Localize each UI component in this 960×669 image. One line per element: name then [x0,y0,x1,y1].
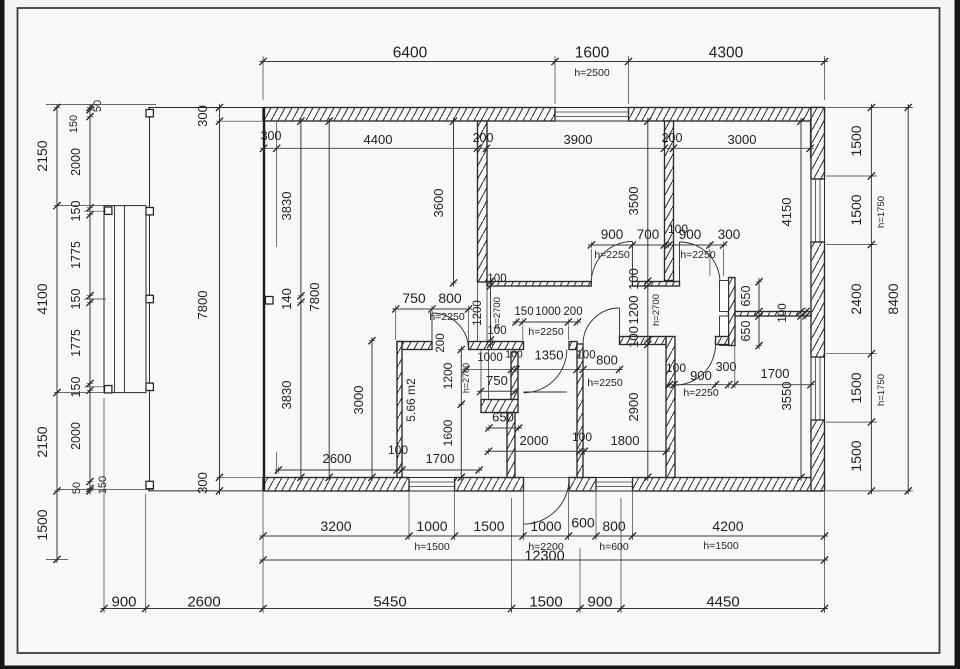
svg-text:1600: 1600 [575,45,610,62]
deck post 3 (150x150) [146,295,153,302]
ext lines bath door dim [396,311,469,340]
hall chain 100 label [668,222,688,236]
svg-text:h=2500: h=2500 [574,67,609,79]
entrance door threshold (1000 h=2200) [524,478,570,492]
hall chain extension lines [591,249,723,276]
bottom exterior wall segment 3 [569,478,596,492]
lobby door (1000 h=2250) arc and leaf [524,350,567,393]
svg-text:h=1500: h=1500 [414,541,449,553]
wall A opening chain 100|1200|100 [472,278,494,348]
svg-text:900: 900 [601,227,624,242]
dim row C 3200|1000|1500|1000|600|800|4200 [259,518,828,540]
right exterior wall segment 2 [811,242,825,357]
black bar left edge [0,0,5,669]
label 100 wall C bottom [572,430,592,444]
svg-text:1500: 1500 [473,518,504,534]
svg-text:h=2700: h=2700 [651,294,662,326]
row C 600 label [571,515,595,531]
ext line partition to chain [734,317,736,388]
bath top wall right of door [469,342,524,350]
row B labels [261,129,757,147]
svg-text:1350: 1350 [535,348,564,363]
label 100 bath left wall [388,443,408,457]
svg-text:200: 200 [435,333,447,352]
hall door left (900 h=2250) arc and leaf [591,241,632,282]
svg-text:1000: 1000 [530,518,561,534]
bath top door dims 750|800 [392,290,472,313]
svg-text:100: 100 [666,361,686,375]
deck post 5 (150x150) [146,481,153,488]
interior wall C (100) [577,344,583,478]
black bar bottom edge [0,666,960,669]
bathroom right wall lower (100) [507,413,515,478]
svg-text:2000: 2000 [69,148,83,176]
stairs post top [105,207,112,214]
svg-text:h=1750: h=1750 [876,374,887,406]
svg-text:3500: 3500 [626,187,641,216]
svg-text:1500: 1500 [848,125,864,156]
svg-text:4300: 4300 [709,45,744,62]
dim 2000|100|1800 [485,433,670,455]
svg-text:900: 900 [690,368,712,383]
svg-text:150: 150 [69,201,83,222]
label h2250 near wall C [587,377,622,389]
svg-text:150: 150 [514,306,533,318]
black bar right edge [955,0,960,669]
svg-text:100: 100 [576,350,595,362]
svg-text:3830: 3830 [279,192,294,221]
bottom exterior wall segment 2 [455,478,524,492]
south wall piece left of bath door [397,342,432,350]
svg-text:2400: 2400 [848,283,864,314]
ext lines right side [826,108,913,491]
dim row E 900|2600|5450|1500|900|4450 [100,594,828,613]
svg-text:h=1500: h=1500 [703,540,738,552]
svg-text:650: 650 [739,286,753,307]
svg-text:7800: 7800 [195,291,210,320]
bathroom area label 5.66 m2 [404,378,418,422]
svg-text:100: 100 [626,268,641,290]
h=2700 bath [461,363,471,393]
svg-text:800: 800 [596,353,618,368]
svg-text:1500: 1500 [34,509,50,540]
svg-text:h=600: h=600 [599,541,629,553]
partition 100 dim at right wall [777,303,810,322]
svg-text:1600: 1600 [441,419,455,446]
window right wall upper (1500 h=1750) [811,179,825,242]
svg-text:h=2250: h=2250 [429,311,464,323]
bottom exterior wall segment 1 [263,478,409,492]
svg-text:1800: 1800 [611,433,640,448]
veranda dim 3600 [431,118,457,287]
svg-text:1200: 1200 [441,362,455,389]
svg-text:150: 150 [97,476,109,494]
right h=1750 labels [876,196,887,406]
window bottom wall (1000 h=1500) [409,478,455,492]
corridor south wall piece 2 [716,337,729,345]
bathroom jog wall [481,400,518,413]
dim row D 12300 [259,549,828,565]
hall doors chain 900|700|100|900|300 [588,227,741,249]
svg-text:1775: 1775 [69,241,83,269]
h=2250 D1 [528,326,563,338]
svg-text:300: 300 [261,129,282,143]
bathroom right wall upper (100) [511,352,518,400]
opening in wall A jambs (1200 h=2700) [478,282,488,342]
svg-text:50: 50 [92,100,104,112]
svg-text:1200: 1200 [626,296,641,325]
window top wall (1600 h=2500) [555,108,629,122]
stairs tread line 2 [124,206,126,393]
door C-right (800 h=2250) arc and leaf [583,308,620,345]
h=2700 label corridor [651,294,662,326]
dim 750 jog [477,373,518,395]
svg-text:1700: 1700 [761,366,790,381]
veranda open edge line [263,108,265,491]
svg-text:2900: 2900 [626,393,641,422]
corridor pillar white lower [720,316,729,346]
svg-text:1000: 1000 [477,352,503,364]
svg-text:h=2250: h=2250 [683,387,718,399]
svg-text:800: 800 [602,518,626,534]
partition chain 650|100|650 [739,278,763,349]
bath door (800 h=2250) leaf and arc [432,313,469,350]
svg-text:2600: 2600 [187,594,220,611]
svg-text:200: 200 [563,306,582,318]
svg-text:1000: 1000 [416,518,447,534]
svg-text:h=1750: h=1750 [876,196,887,228]
hall top wall piece 2 [632,282,679,287]
room1 dim 3000 [351,337,376,481]
bottom door chain 100|900|300|1700 [666,381,815,388]
right chain 8400 [885,104,912,495]
svg-text:750: 750 [402,290,426,306]
svg-text:4200: 4200 [712,518,743,534]
deck left edge with posts [149,108,151,491]
room2 dim 3500|100|1200|100|2900 [626,118,651,481]
window bottom wall (800 h=600) [596,478,633,492]
svg-text:1775: 1775 [69,329,83,357]
svg-text:800: 800 [438,290,462,306]
svg-text:200: 200 [662,131,683,145]
svg-text:1500: 1500 [848,372,864,403]
svg-text:h=2250: h=2250 [594,249,629,261]
svg-text:3830: 3830 [279,381,294,410]
bottom exterior wall segment 4 [633,478,825,492]
wall A opening labels [487,273,506,337]
svg-text:12300: 12300 [524,549,564,565]
svg-text:100: 100 [487,325,506,337]
svg-text:3900: 3900 [564,132,593,147]
interior wall B (200) upper [665,121,674,281]
svg-text:600: 600 [571,515,595,531]
door room3b (900 h=2250) arc [675,345,716,386]
D1 door chain 150|1000|200 [512,306,582,326]
deck post 2 (150x150) [146,208,153,215]
svg-text:h=2250: h=2250 [528,326,563,338]
svg-text:5450: 5450 [373,594,406,611]
dim row B 300|4400|200|3900|200|3000 [260,145,814,152]
svg-text:150: 150 [69,377,83,398]
svg-text:100: 100 [388,443,408,457]
svg-text:100: 100 [668,222,688,236]
top exterior wall left segment [263,108,555,122]
svg-text:4450: 4450 [706,594,739,611]
svg-text:2000: 2000 [69,422,83,450]
svg-text:700: 700 [637,227,660,242]
svg-text:3200: 3200 [320,518,351,534]
partition wall (100) right room [735,312,811,317]
label 200 bath wall [435,333,447,352]
svg-text:4100: 4100 [34,283,50,314]
svg-text:5.66 m2: 5.66 m2 [404,378,418,422]
svg-text:300: 300 [718,227,741,242]
svg-text:750: 750 [486,373,508,388]
svg-text:50: 50 [71,482,83,494]
dim row 2600|100|1700 [275,451,483,474]
corridor pillar white upper [720,281,729,312]
svg-text:h=2250: h=2250 [680,249,715,261]
window right wall lower (1500 h=1750) [811,357,825,420]
right exterior wall segment 1 [811,108,825,180]
svg-text:1500: 1500 [529,594,562,611]
room3a dim 4150 and 3550 [779,118,805,481]
extension lines top row [263,56,825,104]
right exterior wall segment 3 [811,420,825,491]
L2 end labels [68,100,109,494]
south wall stub at wall C [569,342,577,350]
interior wall A (200) between veranda and room 2 [478,121,488,282]
svg-text:2600: 2600 [323,451,352,466]
svg-text:140: 140 [279,288,294,310]
svg-text:8400: 8400 [885,283,901,314]
svg-text:100: 100 [487,273,506,285]
label h=2500 under 1600 [574,67,609,79]
svg-text:900: 900 [111,594,136,611]
svg-text:300: 300 [716,360,737,374]
svg-text:650: 650 [739,321,753,342]
right chain 1500|1500|2400|1500|1500 [848,104,875,495]
interior wall B lower (100) [666,337,675,478]
svg-text:4150: 4150 [779,198,794,227]
deck post 4 (150x150) [146,383,153,390]
ext lines L3 [46,105,262,560]
veranda middle column 140x140 [266,297,274,305]
hall door right (900 h=2250) arc and leaf [680,242,721,283]
stairs post bottom [105,386,112,393]
svg-text:1200: 1200 [472,300,484,326]
veranda chain 3830|140|3830 [279,118,305,481]
corridor right wall [729,278,736,346]
svg-text:1500: 1500 [848,194,864,225]
left chain L2 50|150|2000|150|1775|150|1775|150|2000|150|50 [69,104,94,495]
deck post 1 (150x150) [146,110,153,117]
stairs tread line 1 [114,206,116,393]
dim 650 jog [485,410,522,432]
veranda chain 7800 [307,118,333,481]
row C h labels [414,540,738,553]
svg-text:1500: 1500 [848,440,864,471]
svg-text:7800: 7800 [307,283,322,312]
svg-text:4400: 4400 [364,132,393,147]
svg-text:2000: 2000 [520,433,549,448]
svg-text:100: 100 [626,326,641,348]
bathroom opening jambs [481,350,489,400]
svg-text:300: 300 [195,105,210,127]
hall top wall piece 3 [720,282,731,287]
svg-text:100: 100 [777,303,789,322]
extension lines row B [277,122,811,474]
svg-text:300: 300 [195,472,210,494]
left chain L1 2150|4100|2150|1500 [34,104,61,563]
svg-text:3000: 3000 [728,132,757,147]
svg-text:1700: 1700 [426,451,455,466]
svg-text:3000: 3000 [351,386,366,415]
hall top wall piece 1 [487,282,591,287]
entrance door swing arc and leaf [524,479,570,525]
left chain L3 300|7800|300 [195,104,223,495]
svg-text:2150: 2150 [34,426,50,457]
svg-text:100: 100 [505,349,523,361]
svg-text:1000: 1000 [535,306,561,318]
svg-text:650: 650 [492,410,514,425]
svg-text:100: 100 [572,430,592,444]
deck top edge [148,107,263,109]
bottom ext lines [104,398,825,613]
top exterior wall right segment [629,108,825,122]
dim row top 6400|1600|4300 [259,45,828,66]
lobby chain labels [477,348,618,368]
svg-text:3550: 3550 [779,382,794,411]
D1 chain ext lines [523,326,569,340]
dim 1000|100|1350|100|800 lobby chain [462,366,623,373]
hall h=2250 labels [594,249,715,261]
svg-text:3600: 3600 [431,189,446,218]
svg-text:6400: 6400 [393,45,428,62]
bottom door chain labels [666,360,789,399]
bath inner chain 1200|1600 [441,346,465,481]
h=2250 bath door [429,311,464,323]
svg-text:900: 900 [587,594,612,611]
svg-text:150: 150 [69,289,83,310]
corridor south wall piece [620,337,667,345]
svg-text:h=2250: h=2250 [587,377,622,389]
svg-text:150: 150 [68,115,80,133]
bathroom left wall (100) [397,342,402,478]
svg-text:2150: 2150 [34,140,50,171]
stairs outline 900 wide [104,206,146,393]
svg-text:200: 200 [473,131,494,145]
deck bottom edge [148,490,263,492]
